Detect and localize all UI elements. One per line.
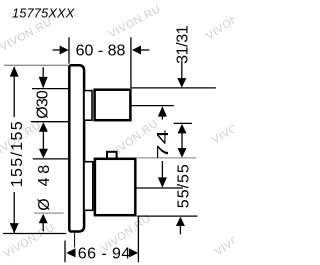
- dim line 60-88 left tail: [53, 49, 60, 51]
- ext line knob1 top left: [32, 88, 69, 90]
- svg-text:66 - 94: 66 - 94: [78, 246, 131, 263]
- ext line knob1 bottom left: [31, 121, 69, 123]
- ext line knob1 top right (31/31 ref): [131, 87, 216, 89]
- svg-text:60 - 88: 60 - 88: [76, 43, 126, 60]
- svg-text:Ø30: Ø30: [35, 90, 52, 119]
- ext line knob1 axis right (74 top ref): [131, 105, 174, 107]
- svg-text:31/31: 31/31: [174, 25, 191, 64]
- dim line 31/31: [181, 61, 183, 79]
- ext line 66-94 left: [64, 241, 66, 263]
- arrow 66-94 left: [66, 248, 75, 257]
- escutcheon plate (side view): [69, 65, 84, 231]
- arrow 55/55 bottom (up): [176, 217, 185, 226]
- bottom knob button nub: [107, 152, 117, 159]
- arrow 31/31 (down): [177, 78, 186, 88]
- bottom knob (cylinder D48): [95, 159, 135, 215]
- ext line plate top left: [4, 64, 68, 66]
- arrow D30 bottom (up): [39, 122, 48, 132]
- ext line knob2 bottom right (55/55 ref): [137, 215, 198, 217]
- dim line 60-88 right tail: [141, 49, 149, 51]
- svg-text:15775XXX: 15775XXX: [12, 6, 75, 21]
- dim line 155/155 upper: [13, 67, 15, 117]
- ext line knob2 top right (55/55 ref): [137, 157, 196, 159]
- arrow 31/31 lower (up): [178, 124, 187, 133]
- dim line D48 lower tail: [42, 222, 44, 231]
- svg-text:55/55: 55/55: [176, 164, 193, 208]
- arrow 60-88 left: [60, 46, 69, 55]
- ext line 66-94 right: [137, 216, 139, 262]
- ext line 31/31 bottom ref bar: [174, 122, 192, 124]
- dim line D30 upper tail: [42, 67, 44, 79]
- dim line 55/55 bottom tail: [179, 224, 181, 234]
- ext line 60-88 left: [68, 37, 70, 63]
- ext line below plate: [74, 233, 76, 248]
- arrow 60-88 right: [132, 46, 141, 55]
- arrow 74 top (up): [158, 106, 167, 117]
- arrow 74 bottom (down): [158, 177, 167, 187]
- top knob neck: [84, 91, 92, 121]
- arrow 55/55 top (down): [178, 148, 187, 158]
- svg-text:74: 74: [155, 129, 172, 159]
- arrow D48 top (down): [39, 149, 48, 159]
- ext line plate bottom left: [3, 233, 66, 235]
- arrow 155/155 up: [10, 66, 19, 76]
- dim line 31-55 between: [181, 130, 183, 151]
- top knob (cylinder D30): [95, 90, 131, 121]
- ext line 60-88 right / knob1 face: [130, 37, 132, 88]
- dim line 74 upper: [161, 112, 163, 120]
- arrow 155/155 down: [10, 223, 19, 233]
- ext line knob2 bottom left: [34, 212, 64, 214]
- arrow 66-94 right: [129, 248, 138, 257]
- ext line knob2 axis right (74 bottom ref): [135, 187, 183, 189]
- dim line 74 lower: [161, 161, 163, 179]
- svg-text:155/155: 155/155: [9, 121, 26, 187]
- bottom knob neck: [84, 162, 93, 211]
- arrow D30 top (down): [39, 77, 48, 89]
- dim line 155/155 lower: [13, 192, 15, 233]
- arrow D48 bottom (up): [39, 214, 48, 224]
- ext line knob2 top left: [33, 158, 68, 160]
- dim line D30-D48 between: [42, 128, 44, 153]
